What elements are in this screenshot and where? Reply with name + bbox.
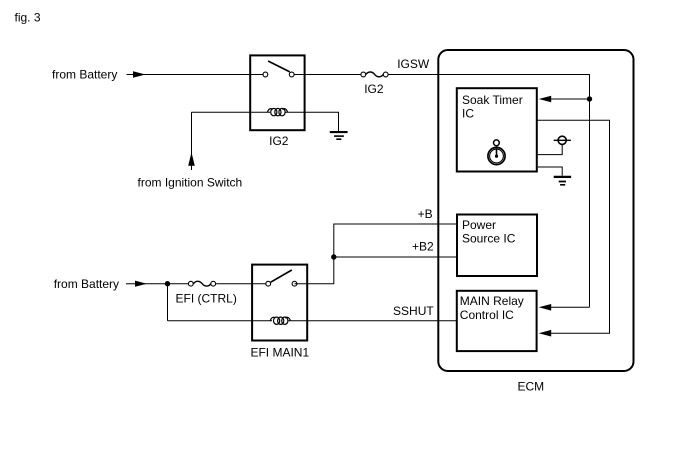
junction dot battery branch (165, 281, 170, 286)
svg-text:IC: IC (462, 106, 474, 120)
relay IG2 switch contacts (263, 72, 294, 77)
relay EFI MAIN1 box (252, 265, 307, 341)
MAIN Relay Control IC box (457, 291, 537, 351)
svg-text:Power: Power (462, 218, 496, 232)
Soak Timer IC box (457, 88, 537, 171)
svg-text:from Battery: from Battery (54, 277, 119, 291)
svg-text:SSHUT: SSHUT (393, 304, 434, 318)
svg-text:from Battery: from Battery (52, 67, 117, 81)
wire +B riser (295, 224, 458, 284)
svg-text:Control IC: Control IC (460, 308, 514, 322)
fuse EFI (CTRL) (188, 281, 215, 286)
svg-text:Soak Timer: Soak Timer (462, 93, 523, 107)
relay EFI MAIN1 switch contacts (266, 281, 297, 286)
wire SSHUT (battery branch through coil to MAIN Relay Control IC) (168, 284, 458, 321)
svg-text:+B: +B (418, 207, 433, 221)
svg-text:IG2: IG2 (364, 82, 384, 96)
Power Source IC box (457, 215, 537, 277)
svg-text:from Ignition Switch: from Ignition Switch (138, 176, 243, 190)
relay EFI MAIN1 coil (270, 317, 290, 324)
label Power Source IC (462, 218, 516, 246)
label MAIN Relay Control IC (460, 294, 524, 322)
fuse IG2 (361, 72, 388, 77)
stopwatch icon (488, 140, 505, 165)
wire from battery to relay EFI MAIN1 with arrow (126, 281, 266, 287)
label Soak Timer IC (462, 93, 523, 120)
svg-text:fig. 3: fig. 3 (15, 11, 41, 25)
ECM box (438, 50, 633, 371)
relay IG2 switch blade (268, 61, 290, 72)
ground (soak timer) (538, 167, 571, 185)
wire IGSW into ECM (388, 74, 590, 76)
vertical IGSW wire inside ECM (589, 74, 591, 307)
Soak Timer output loop to MAIN Relay Control IC (arrow 2) (538, 120, 610, 336)
wire relay IG2 to fuse IG2 (294, 74, 361, 76)
arrow 1 into MAIN Relay Control IC (539, 304, 590, 311)
wire +B2 (334, 256, 457, 258)
wire from ignition switch (vertical, arrow up) (188, 112, 195, 170)
terminal stub (circle with bar) (538, 136, 571, 154)
svg-text:IGSW: IGSW (397, 57, 430, 71)
wire from battery to relay IG2 with arrow (127, 71, 264, 78)
wire coil left lead (192, 111, 271, 113)
svg-text:MAIN Relay: MAIN Relay (460, 294, 524, 308)
arrow into Soak Timer IC (539, 96, 590, 103)
svg-text:EFI MAIN1: EFI MAIN1 (250, 345, 309, 359)
svg-text:ECM: ECM (517, 380, 544, 394)
svg-text:EFI (CTRL): EFI (CTRL) (176, 292, 237, 306)
ground (IG2 coil) (330, 132, 348, 139)
svg-text:IG2: IG2 (269, 134, 289, 148)
junction dot +B2 (331, 254, 336, 259)
wire coil right lead to ground (285, 112, 339, 131)
relay EFI MAIN1 switch blade (271, 270, 292, 282)
relay IG2 box (250, 55, 304, 130)
svg-text:Source IC: Source IC (462, 232, 516, 246)
junction dot IGSW branch (587, 96, 592, 101)
relay IG2 coil (268, 108, 288, 115)
svg-text:+B2: +B2 (412, 239, 434, 253)
